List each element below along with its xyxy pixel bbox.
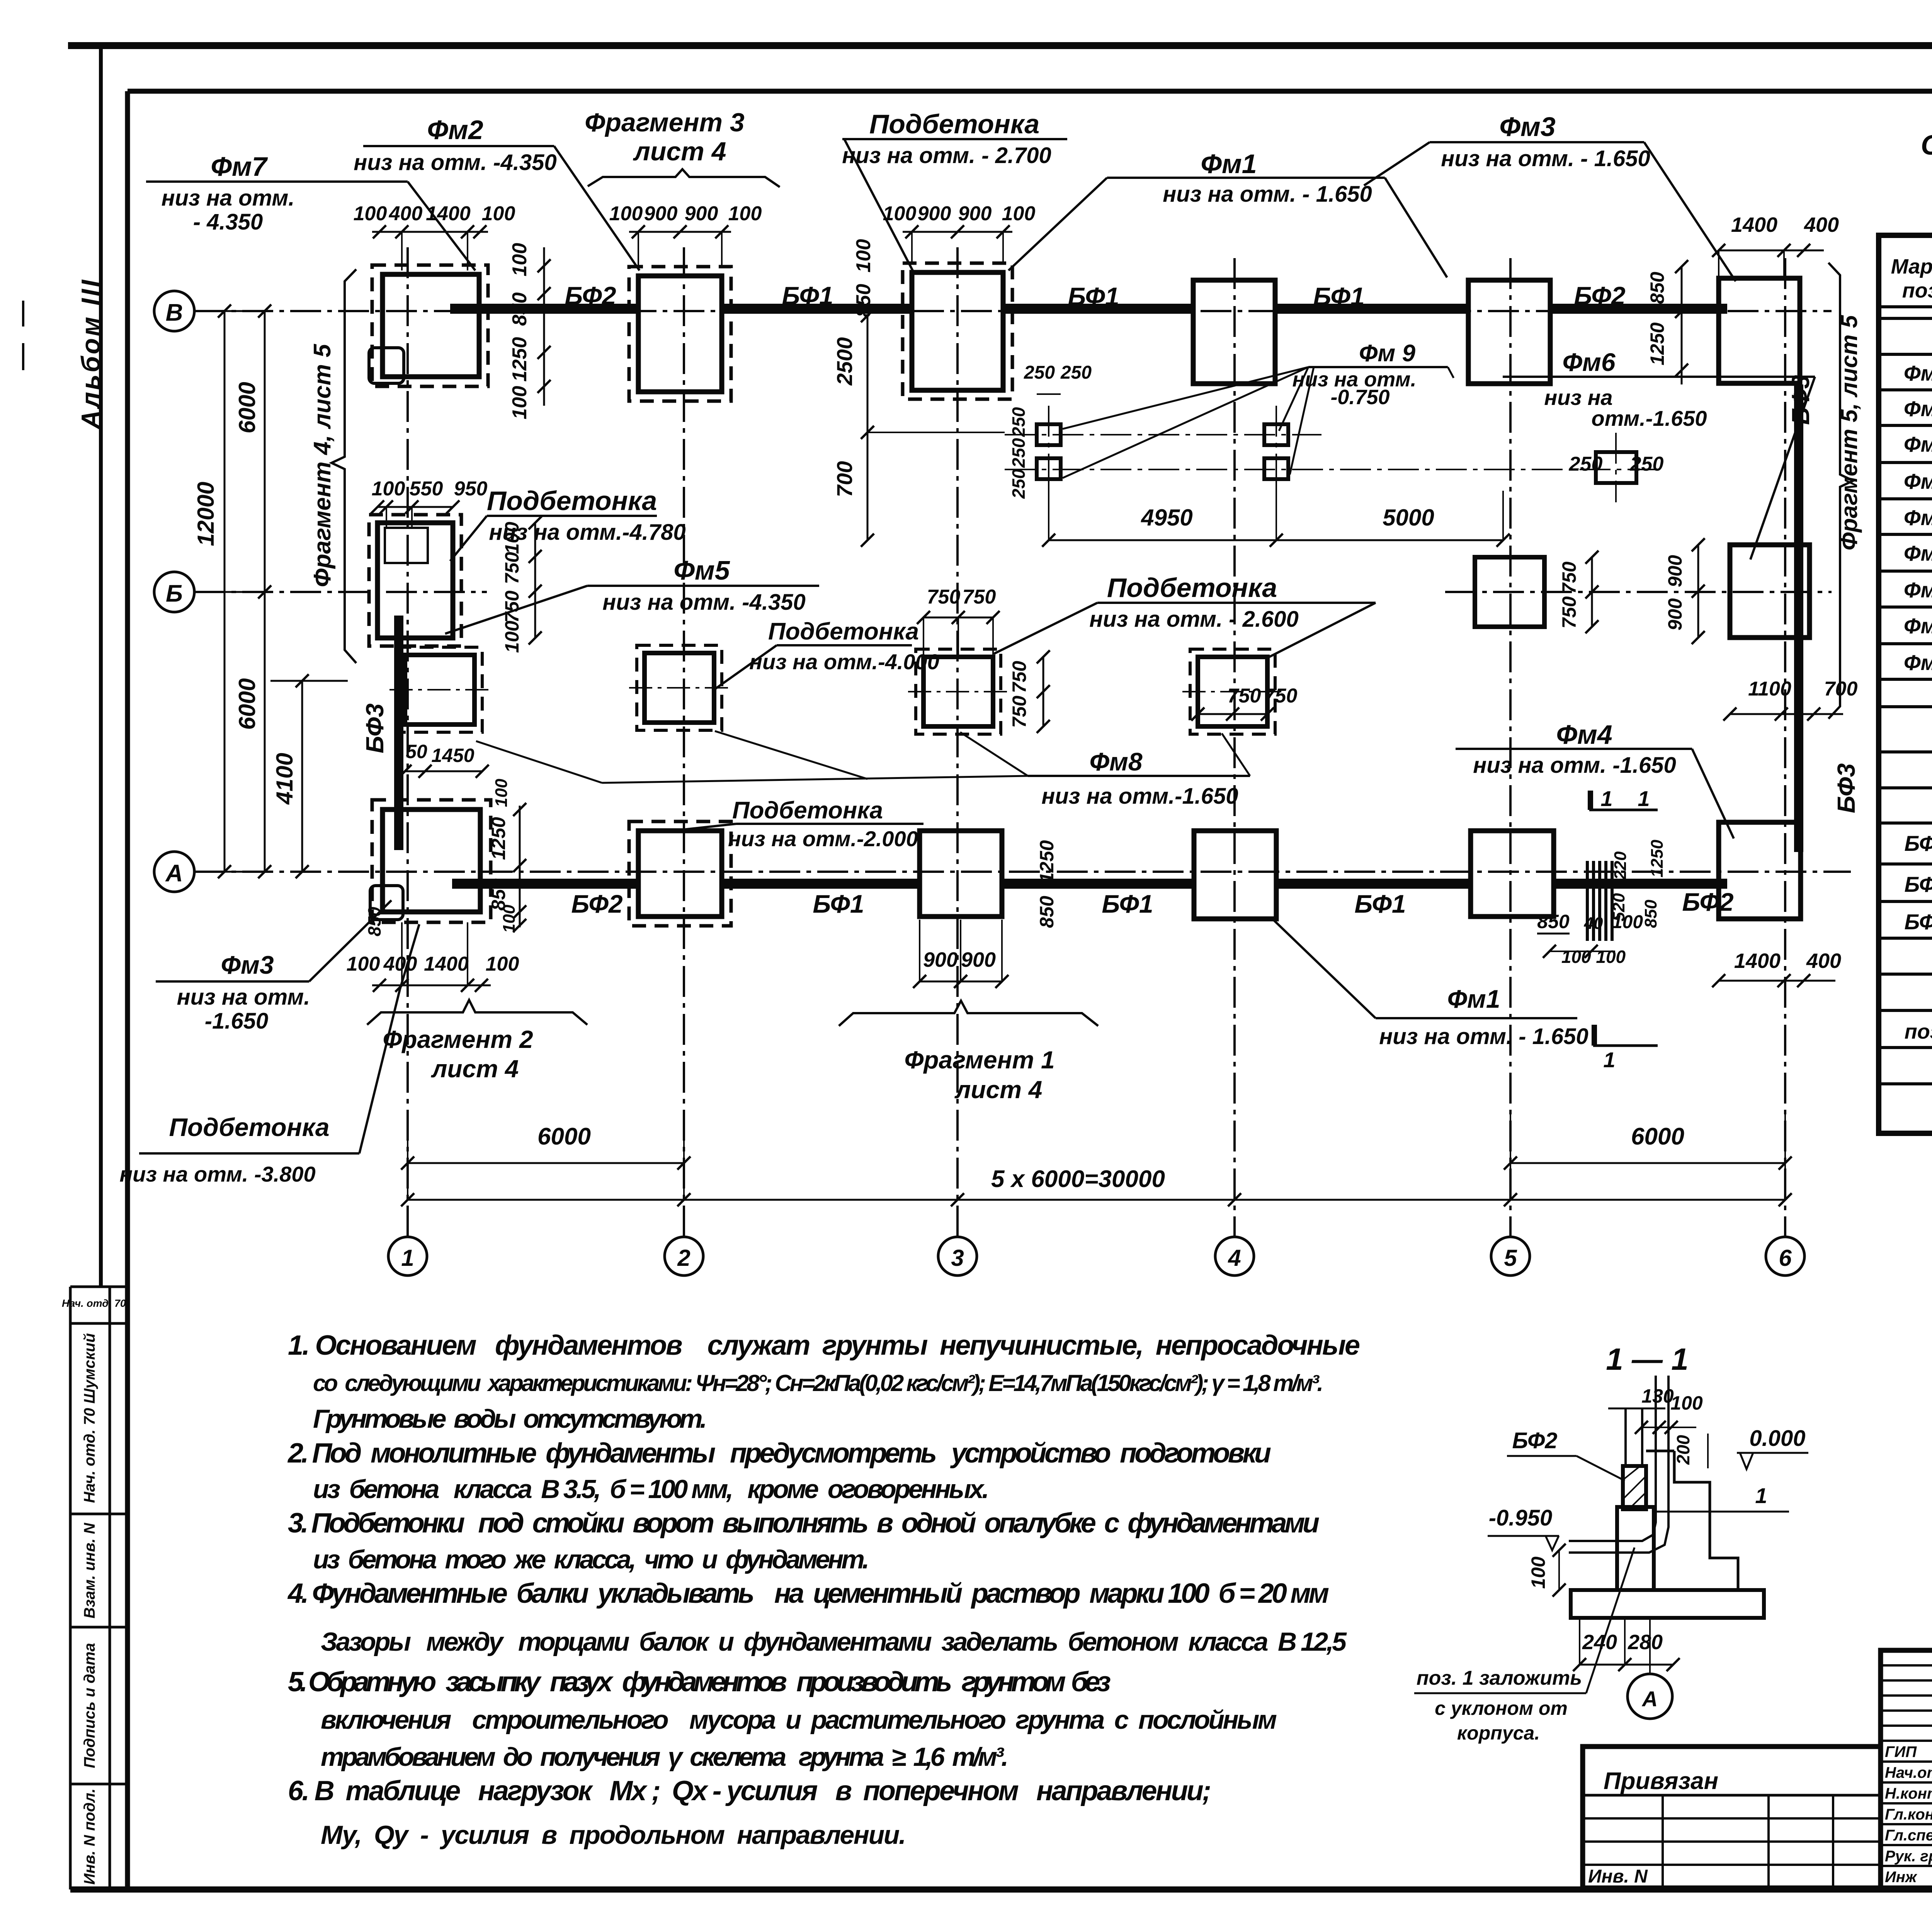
svg-text:Подбетонка: Подбетонка: [1107, 573, 1277, 603]
svg-text:750: 750: [1228, 685, 1261, 707]
svg-text:250: 250: [1009, 438, 1029, 468]
pipe hatch поз.1 in plan: [1586, 861, 1589, 941]
svg-text:Марка: Марка: [1891, 255, 1932, 278]
pad centre cross marks: [389, 689, 490, 690]
svg-text:низ на отм.: низ на отм.: [177, 985, 310, 1010]
svg-text:ГИП: ГИП: [1885, 1743, 1917, 1760]
svg-text:Фм4: Фм4: [1556, 719, 1612, 750]
svg-text:трамбованием до получения γ: трамбованием до получения γ скелета грун…: [321, 1742, 1009, 1772]
svg-text:низ на отм.-4.780: низ на отм.-4.780: [489, 520, 685, 545]
svg-text:Фм6: Фм6: [1562, 348, 1616, 376]
svg-text:750: 750: [1264, 685, 1298, 707]
svg-text:поз.1: поз.1: [1905, 1020, 1932, 1043]
svg-text:Подбетонка: Подбетонка: [487, 486, 657, 516]
svg-text:лист 4: лист 4: [633, 137, 726, 166]
svg-text:включения строительного: включения строительного мусора и растите…: [321, 1705, 1277, 1735]
svg-text:Фм2: Фм2: [1904, 396, 1932, 421]
svg-text:Фрагмент 2: Фрагмент 2: [383, 1026, 533, 1053]
svg-text:520: 520: [1609, 893, 1628, 922]
svg-text:100: 100: [347, 953, 380, 975]
svg-text:Н.контр.: Н.контр.: [1885, 1785, 1932, 1802]
svg-text:Фм7: Фм7: [211, 151, 268, 182]
svg-text:Гл.спец: Гл.спец: [1885, 1827, 1932, 1844]
pad Б/4 (Фм8): [1198, 657, 1267, 726]
footing А/1 (Фм3): [383, 810, 480, 912]
svg-text:низ на отм. - 2.600: низ на отм. - 2.600: [1089, 607, 1299, 632]
pad axis lines: [1005, 434, 1321, 435]
svg-text:поз. 1 заложить: поз. 1 заложить: [1417, 1667, 1582, 1689]
dim 12000 left: [224, 311, 226, 872]
beam БФ1 row А 4-5: [1276, 879, 1471, 889]
svg-text:Фм6: Фм6: [1904, 541, 1932, 565]
svg-text:Фм5: Фм5: [1904, 505, 1932, 530]
vertical dim 750 750 right of Б/5 pad: [1591, 557, 1593, 627]
svg-text:250: 250: [1024, 362, 1055, 383]
beam БФ1 row А 2-3: [722, 879, 920, 889]
left stamp strip: [69, 1287, 72, 1889]
svg-text:БФ2: БФ2: [1904, 872, 1932, 896]
svg-text:250: 250: [1630, 453, 1664, 475]
svg-text:низ на отм. -4.350: низ на отм. -4.350: [602, 590, 805, 615]
svg-text:Б: Б: [166, 580, 183, 607]
svg-text:250: 250: [1009, 469, 1029, 499]
svg-text:900: 900: [923, 948, 958, 971]
dim 6000/6000 left: [264, 311, 266, 872]
svg-text:850: 850: [1537, 911, 1570, 932]
svg-text:Привязан: Привязан: [1604, 1768, 1718, 1794]
svg-text:400: 400: [389, 202, 423, 225]
bracket Фрагмент 5: [1828, 263, 1853, 719]
svg-text:1: 1: [1600, 786, 1612, 811]
vertical dims 850 1250 left of В/6: [1681, 267, 1683, 384]
section axis circle А: [1649, 1618, 1651, 1673]
svg-text:1. Основанием фундаментов: 1. Основанием фундаментов служат грунты …: [288, 1330, 1360, 1361]
section mark 1 bottom: [1592, 1025, 1597, 1046]
svg-text:50: 50: [406, 741, 427, 762]
footing А/6 (Фм4): [1719, 822, 1801, 919]
svg-text:100: 100: [486, 953, 519, 975]
svg-text:4. Фундаментные балки уклады: 4. Фундаментные балки укладывать на цеме…: [287, 1578, 1329, 1609]
svg-text:низ на отм.-4.000: низ на отм.-4.000: [749, 650, 939, 674]
svg-text:900: 900: [685, 202, 718, 225]
grid axis А: [154, 852, 194, 892]
beam БФ2 row А 1-2: [452, 879, 638, 889]
dim 4100: [301, 681, 303, 872]
svg-text:из бетона класса В 3.5, б: из бетона класса В 3.5, б = 100 мм, кром…: [313, 1475, 989, 1504]
svg-text:850: 850: [1646, 272, 1668, 304]
svg-text:Нач. отд. 70: Нач. отд. 70: [62, 1298, 126, 1309]
beam БФ2 row А 5-6: [1554, 879, 1727, 889]
svg-text:Инв. N подл.: Инв. N подл.: [81, 1789, 98, 1885]
svg-text:1 — 1: 1 — 1: [1606, 1342, 1688, 1376]
svg-text:БФ1: БФ1: [782, 281, 833, 310]
beam БФ3 right vertical: [1794, 384, 1803, 852]
svg-text:БФ2: БФ2: [1574, 281, 1626, 310]
svg-text:100: 100: [728, 202, 762, 225]
footing Б/1 (Фм5) stepped: [378, 523, 453, 638]
svg-text:130: 130: [1641, 1385, 1674, 1407]
footing В/6 (Фм3): [1719, 278, 1800, 383]
svg-text:100: 100: [1527, 1556, 1549, 1589]
svg-text:750: 750: [501, 590, 523, 623]
svg-text:А: А: [165, 860, 183, 887]
footing В/4 (Фм1): [1193, 280, 1275, 384]
section post: [1624, 1408, 1627, 1466]
svg-text:Подбетонка: Подбетонка: [869, 109, 1039, 139]
svg-text:400: 400: [383, 953, 417, 975]
svg-text:БФ3: БФ3: [361, 703, 389, 753]
svg-text:250: 250: [1569, 453, 1603, 475]
svg-text:5. Обратную засыпку пазух: 5. Обратную засыпку пазух фундаментов пр…: [288, 1667, 1111, 1697]
beam БФ1 row В 2-3: [722, 304, 912, 314]
svg-text:100: 100: [609, 202, 643, 225]
svg-text:12000: 12000: [193, 482, 219, 546]
svg-text:-0.750: -0.750: [1330, 386, 1389, 409]
svg-text:1400: 1400: [1731, 213, 1777, 236]
svg-text:1100: 1100: [1748, 678, 1791, 700]
svg-text:900: 900: [644, 202, 678, 225]
svg-text:750: 750: [963, 586, 996, 608]
spec table grid: [1879, 235, 1932, 1133]
svg-text:2. Под монолитные фундаменты: 2. Под монолитные фундаменты предусмотре…: [287, 1438, 1271, 1469]
svg-text:6000: 6000: [234, 678, 260, 730]
svg-text:100: 100: [1670, 1392, 1703, 1414]
svg-text:Нач.отд.: Нач.отд.: [1885, 1764, 1932, 1781]
svg-text:Фрагмент 5, лист 5: Фрагмент 5, лист 5: [1836, 315, 1862, 550]
dim 2500/700 col3-4: [867, 316, 869, 540]
inner drawing frame: [128, 89, 1932, 94]
footing А/4: [1194, 831, 1276, 919]
svg-text:1400: 1400: [424, 953, 469, 975]
svg-text:БФ2: БФ2: [571, 889, 623, 918]
beam БФ1 row В 4-5: [1277, 304, 1468, 314]
svg-text:Фм1: Фм1: [1201, 149, 1257, 179]
sheet outer frame: [68, 42, 1932, 49]
svg-text:Фм3: Фм3: [1499, 112, 1555, 142]
svg-text:с уклоном от: с уклоном от: [1435, 1697, 1568, 1719]
svg-text:низ на отм. -4.350: низ на отм. -4.350: [354, 150, 556, 175]
svg-text:Му, Qу - усилия в продоль: Му, Qу - усилия в продольном направлении…: [321, 1820, 906, 1850]
svg-text:1450: 1450: [431, 745, 474, 766]
svg-text:БФ1: БФ1: [1102, 889, 1153, 918]
section base slab: [1571, 1590, 1764, 1618]
svg-text:Спецификация к схеме распол: Спецификация к схеме расположения фундам…: [1921, 130, 1932, 161]
svg-text:БФ2: БФ2: [1512, 1428, 1557, 1453]
svg-text:Гл.конст.: Гл.конст.: [1885, 1806, 1932, 1823]
svg-text:Нач. отд. 70 Шумский: Нач. отд. 70 Шумский: [81, 1333, 98, 1503]
pad Б/1 low (Фм8): [405, 655, 474, 724]
pad Б/2 (Фм8): [645, 653, 714, 723]
bracket фрагмент 3: [588, 169, 780, 187]
section pipes: [1569, 1376, 1656, 1541]
grid axis Б: [154, 572, 194, 612]
svg-text:6: 6: [1779, 1245, 1792, 1271]
svg-text:400: 400: [1804, 213, 1839, 236]
svg-text:Подбетонка: Подбетонка: [768, 618, 919, 645]
svg-text:3: 3: [951, 1245, 964, 1271]
svg-text:250: 250: [1009, 407, 1029, 437]
svg-text:900: 900: [961, 948, 996, 971]
svg-text:БФ3: БФ3: [1832, 763, 1860, 813]
svg-text:280: 280: [1628, 1631, 1663, 1654]
svg-text:850: 850: [509, 293, 531, 326]
title block signature table: [1881, 1650, 1932, 1888]
svg-text:900: 900: [958, 202, 992, 225]
svg-text:- 4.350: - 4.350: [193, 209, 263, 235]
svg-text:6. В таблице нагрузок Мх: 6. В таблице нагрузок Мх ; Qх - усилия в…: [288, 1776, 1211, 1806]
svg-text:Фм9: Фм9: [1904, 650, 1932, 675]
svg-text:Взам. инв. N: Взам. инв. N: [81, 1522, 98, 1618]
svg-text:Фм 9: Фм 9: [1359, 340, 1415, 367]
svg-text:Фм7: Фм7: [1904, 578, 1932, 602]
svg-text:Фрагмент 1: Фрагмент 1: [904, 1046, 1054, 1074]
svg-text:1250: 1250: [1036, 840, 1058, 883]
svg-text:6000: 6000: [234, 382, 260, 433]
svg-text:Фм5: Фм5: [673, 555, 730, 585]
svg-text:БФ1: БФ1: [813, 889, 864, 918]
svg-text:100: 100: [372, 478, 405, 500]
svg-text:750: 750: [501, 552, 523, 584]
bracket Фрагмент 2: [367, 1000, 587, 1025]
svg-text:2500: 2500: [832, 337, 857, 386]
svg-text:Грунтовые воды отсутствуют.: Грунтовые воды отсутствуют.: [313, 1404, 707, 1434]
footing В/3: [912, 272, 1003, 390]
svg-text:4: 4: [1228, 1245, 1241, 1271]
svg-text:1: 1: [1638, 786, 1650, 811]
svg-text:А: А: [1641, 1687, 1658, 1711]
svg-text:Фм1: Фм1: [1904, 361, 1932, 385]
svg-text:1250: 1250: [1648, 840, 1667, 878]
svg-text:1: 1: [1603, 1048, 1615, 1072]
svg-text:Зазоры между торцами бало: Зазоры между торцами балок и фундаментам…: [321, 1627, 1347, 1656]
svg-text:1250: 1250: [509, 337, 531, 382]
svg-text:5: 5: [1504, 1245, 1517, 1271]
small pads Фм9: [1037, 424, 1061, 445]
footing А/2: [638, 831, 722, 917]
svg-text:750: 750: [1558, 561, 1580, 594]
svg-text:100: 100: [852, 239, 875, 273]
section steps right: [1674, 1451, 1738, 1590]
svg-text:0.000: 0.000: [1749, 1426, 1805, 1451]
svg-text:-0.950: -0.950: [1489, 1505, 1552, 1531]
beam БФ2 row В 5-6: [1550, 304, 1727, 314]
svg-text:200: 200: [1673, 1435, 1693, 1465]
svg-text:2: 2: [677, 1245, 690, 1271]
svg-text:Альбом III: Альбом III: [76, 278, 105, 430]
svg-text:низ на отм.-1.650: низ на отм.-1.650: [1041, 784, 1238, 809]
svg-text:низ на отм. - 1.650: низ на отм. - 1.650: [1379, 1024, 1588, 1049]
beam БФ3 left vertical: [394, 616, 403, 850]
svg-text:3. Подбетонки под стойки в: 3. Подбетонки под стойки ворот выполнять…: [288, 1508, 1320, 1539]
svg-text:950: 950: [454, 478, 488, 500]
svg-text:БФ1: БФ1: [1354, 889, 1406, 918]
vertical dims right of Б/1: [534, 523, 536, 638]
svg-text:Инж: Инж: [1885, 1869, 1918, 1886]
svg-text:100: 100: [501, 621, 523, 653]
svg-text:250: 250: [1060, 362, 1092, 383]
svg-text:750: 750: [1009, 696, 1030, 728]
svg-text:1: 1: [1755, 1483, 1767, 1508]
svg-text:Фм8: Фм8: [1089, 747, 1142, 776]
svg-text:Подбетонка: Подбетонка: [169, 1113, 329, 1141]
footing В/1 (Фм2): [383, 274, 479, 377]
svg-text:40: 40: [1584, 914, 1603, 933]
svg-text:900: 900: [1664, 555, 1686, 587]
svg-text:550: 550: [410, 478, 443, 500]
svg-text:низ на отм. - 1.650: низ на отм. - 1.650: [1163, 182, 1372, 207]
svg-text:отм.-1.650: отм.-1.650: [1591, 406, 1707, 430]
svg-text:850: 850: [1641, 900, 1660, 928]
svg-text:низ на отм. -1.650: низ на отм. -1.650: [1473, 753, 1676, 778]
footing А/3: [920, 831, 1002, 917]
svg-text:Фм8: Фм8: [1904, 614, 1932, 638]
svg-text:100: 100: [492, 779, 511, 807]
svg-text:со следующими характеристика: со следующими характеристиками: Ψн=28°; …: [313, 1370, 1323, 1396]
pad Б/5: [1475, 557, 1544, 627]
svg-text:Фм1: Фм1: [1447, 985, 1500, 1013]
svg-text:БФ2: БФ2: [1682, 888, 1734, 916]
grid axis В: [154, 291, 194, 331]
svg-text:БФ3: БФ3: [1904, 910, 1932, 934]
svg-text:750: 750: [1558, 596, 1580, 629]
bracket Фрагмент 4: [332, 269, 356, 663]
svg-text:1250: 1250: [488, 817, 509, 860]
section beam hatched: [1623, 1466, 1646, 1509]
svg-text:низ на отм. -3.800: низ на отм. -3.800: [119, 1162, 315, 1186]
stamp Привязан box: [1583, 1747, 1881, 1888]
svg-text:из бетона того же класса,: из бетона того же класса, что и фундамен…: [313, 1545, 869, 1574]
svg-text:900: 900: [918, 202, 951, 225]
vertical dim 750 750 right of Б/3 pad: [1043, 657, 1044, 726]
svg-text:БФ2: БФ2: [565, 281, 616, 310]
beam БФ2 row В 1-2: [450, 304, 638, 314]
svg-text:5000: 5000: [1383, 505, 1434, 531]
svg-text:Фрагмент 4, лист 5: Фрагмент 4, лист 5: [309, 344, 336, 587]
svg-text:Фм3: Фм3: [221, 951, 274, 979]
svg-text:Инв. N: Инв. N: [1588, 1866, 1648, 1887]
svg-text:БФ1: БФ1: [1904, 831, 1932, 855]
svg-text:Фм2: Фм2: [427, 115, 483, 145]
svg-text:корпуса.: корпуса.: [1457, 1722, 1540, 1744]
vertical dims right of В/1: [543, 247, 545, 406]
svg-text:1400: 1400: [1734, 949, 1781, 973]
svg-text:220: 220: [1611, 851, 1630, 880]
footing А/5: [1471, 831, 1554, 917]
svg-text:4100: 4100: [272, 753, 298, 804]
svg-text:850: 850: [1036, 896, 1058, 928]
svg-text:5 х 6000=30000: 5 х 6000=30000: [991, 1166, 1165, 1192]
svg-text:Подбетонка: Подбетонка: [732, 797, 883, 824]
svg-text:низ на отм.-2.000: низ на отм.-2.000: [728, 827, 918, 851]
svg-text:лист 4: лист 4: [431, 1055, 519, 1083]
svg-text:низ на отм.: низ на отм.: [162, 185, 295, 211]
svg-text:-1.650: -1.650: [205, 1009, 268, 1034]
svg-text:100: 100: [354, 202, 387, 225]
svg-text:100: 100: [509, 243, 531, 277]
svg-text:750: 750: [927, 586, 961, 608]
svg-text:1: 1: [401, 1245, 414, 1271]
svg-text:Фрагмент 3: Фрагмент 3: [585, 108, 745, 137]
beam БФ1 row А 3-4: [1002, 879, 1194, 889]
section marks 1-1 top: [1588, 791, 1593, 810]
svg-text:700: 700: [832, 461, 857, 497]
footing В/5 (Фм1): [1468, 280, 1550, 384]
svg-text:Рук. гр.: Рук. гр.: [1885, 1848, 1932, 1865]
footing В/2 (Фм7 area): [638, 276, 722, 392]
svg-text:100: 100: [482, 202, 515, 225]
svg-text:БФ1: БФ1: [1068, 282, 1119, 311]
section pedestal: [1617, 1507, 1654, 1590]
svg-text:6000: 6000: [537, 1123, 591, 1150]
footing Б/6 (Фм6): [1730, 545, 1810, 638]
svg-text:100: 100: [509, 386, 531, 420]
svg-text:6000: 6000: [1631, 1123, 1684, 1150]
svg-text:Фм4: Фм4: [1904, 469, 1932, 493]
beam БФ1 row В 3-4: [1003, 304, 1194, 314]
pad Б/3 (Фм8): [923, 657, 993, 726]
svg-text:4950: 4950: [1141, 505, 1192, 531]
bracket Фрагмент 1: [839, 1001, 1098, 1026]
svg-text:лист 4: лист 4: [954, 1076, 1043, 1104]
svg-text:400: 400: [1806, 949, 1841, 973]
svg-text:В: В: [166, 299, 183, 326]
svg-text:Подпись и дата: Подпись и дата: [81, 1643, 98, 1768]
svg-text:БФ1: БФ1: [1313, 282, 1364, 311]
svg-text:Фм3: Фм3: [1904, 432, 1932, 456]
svg-text:поз.: поз.: [1902, 279, 1932, 302]
vertical dim 900 900 left of Б/6: [1697, 545, 1699, 638]
svg-text:750: 750: [1009, 661, 1030, 693]
svg-text:низ на отм. - 1.650: низ на отм. - 1.650: [1441, 146, 1650, 171]
svg-text:900: 900: [1664, 598, 1686, 631]
column axes 1-6: [406, 247, 409, 1237]
svg-text:100: 100: [1002, 202, 1036, 225]
svg-text:1250: 1250: [1646, 322, 1668, 365]
svg-text:низ на отм. - 2.700: низ на отм. - 2.700: [842, 143, 1051, 168]
